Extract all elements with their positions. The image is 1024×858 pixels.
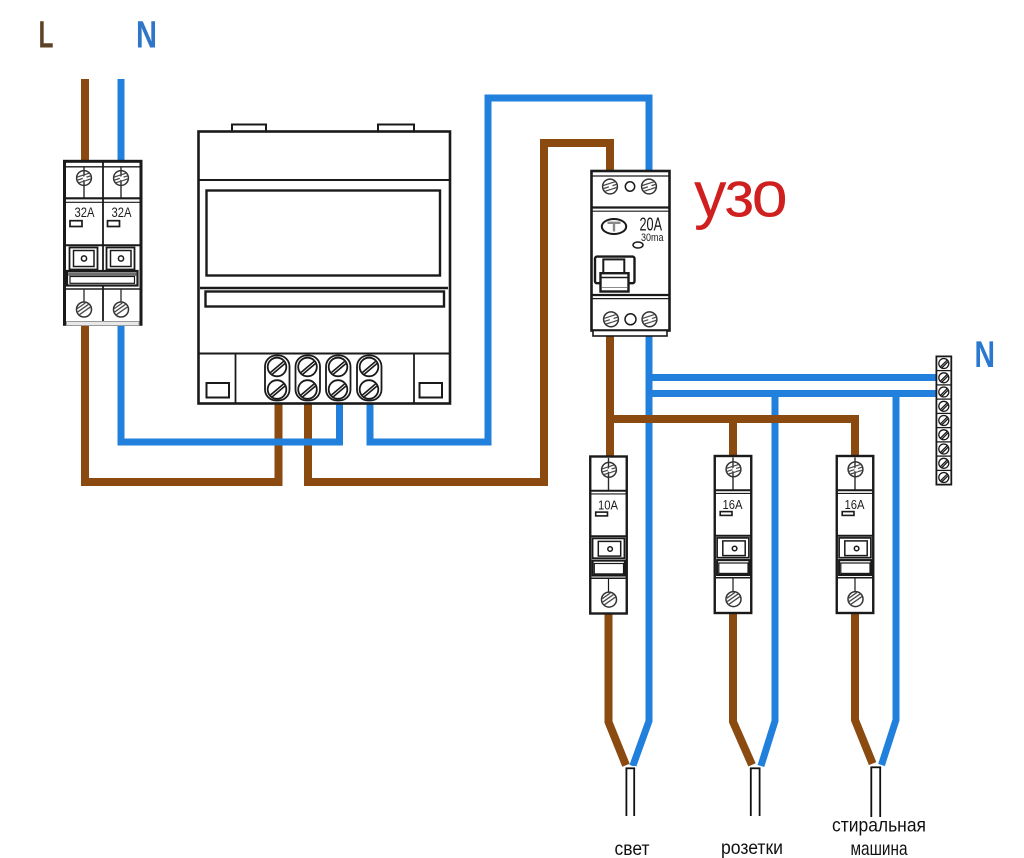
breaker QF1 pole2 indicator window xyxy=(108,221,120,227)
meter M1 terminal 3 (N in) xyxy=(326,356,351,401)
wire N drop to load3 cable xyxy=(882,390,897,765)
RCD U1 top-left screw terminal xyxy=(602,179,618,194)
breaker QF3 16A body xyxy=(715,456,752,613)
meter M1 terminal 4 (N out) xyxy=(357,356,382,401)
cable load2 (white sheath) xyxy=(749,766,761,816)
wire L load2 from QF3 bottom to cable xyxy=(733,612,752,765)
wire L bus drop to QF3 top xyxy=(729,419,737,458)
RCD U1 bottom middle hole xyxy=(625,314,636,325)
cable load1 (white sheath) xyxy=(625,766,636,816)
breaker QF1 pole1 rocker xyxy=(70,248,98,270)
breaker QF1 bottom lip xyxy=(67,322,140,326)
wire L load1 from QF2 bottom to cable xyxy=(609,612,627,765)
svg-text:розетки: розетки xyxy=(721,837,783,858)
RCD U1 small indicator oval xyxy=(633,242,643,248)
wire N from meter terminal 4 up-over to RCD top-right xyxy=(370,98,649,442)
RCD U1 top middle hole xyxy=(625,182,634,191)
breaker QF1 handle tie-bar xyxy=(67,271,138,286)
meter M1 terminal 1 (L in) xyxy=(265,356,290,401)
meter M1 terminal section line xyxy=(199,353,451,355)
RCD U1 toggle switch xyxy=(595,257,635,292)
breaker QF1 pole2 bottom screw terminal xyxy=(112,289,128,317)
wire L RCD bottom down to breaker QF2 top xyxy=(606,329,614,458)
meter M1 body xyxy=(199,125,451,404)
neutral terminal block N body xyxy=(936,356,951,484)
meter M1 terminal 2 (L out) xyxy=(296,356,321,401)
breaker QF1 switch section line xyxy=(65,244,142,246)
wire N from RCD bottom down to load1 cable xyxy=(633,329,649,766)
RCD U1 test button oval with T xyxy=(602,219,626,234)
RCD U1 lower divider xyxy=(592,295,670,299)
svg-text:32A: 32A xyxy=(75,205,96,220)
svg-text:стиральная: стиральная xyxy=(832,815,926,837)
RCD U1 bottom-right screw terminal xyxy=(642,312,658,327)
breaker QF1 mid divider xyxy=(65,198,142,202)
meter M1 DIN clip left xyxy=(207,383,230,398)
meter M1 DIN clip right xyxy=(420,383,443,398)
breaker QF1 lower divider xyxy=(65,288,142,290)
meter M1 terminal section inner dividers xyxy=(235,354,237,404)
RCD U1 top-right screw terminal xyxy=(641,179,657,194)
RCD U1 upper divider xyxy=(592,208,670,212)
meter M1 display window xyxy=(207,191,441,276)
wire N drop to load2 cable xyxy=(761,390,775,766)
breaker QF1 pole1 top screw terminal xyxy=(76,168,92,199)
breaker QF1 pole2 rocker xyxy=(107,248,135,270)
svg-text:32A: 32A xyxy=(112,205,133,220)
svg-text:30ma: 30ma xyxy=(641,232,664,244)
wire N bus horizontal 2 to N-block xyxy=(646,390,937,397)
breaker QF1 pole1 bottom screw terminal xyxy=(75,289,91,317)
cable load3 (white sheath) xyxy=(870,765,883,817)
RCD U1 body xyxy=(592,171,670,331)
RCD U1 bottom lip xyxy=(593,331,667,337)
breaker QF2 10A body xyxy=(590,457,627,614)
wire N from QF1 bottom to meter terminal 3 xyxy=(121,323,340,442)
svg-text:16A: 16A xyxy=(723,497,743,512)
meter M1 mid line xyxy=(200,287,448,289)
svg-text:свет: свет xyxy=(615,838,650,858)
svg-text:10A: 10A xyxy=(598,498,618,513)
breaker QF1 pole1 indicator window xyxy=(70,221,82,227)
breaker QF1 double-pole 32A body xyxy=(65,161,142,324)
wire L from QF1 bottom to meter terminal 1 xyxy=(85,323,279,482)
svg-text:16A: 16A xyxy=(845,497,865,512)
svg-text:узо: узо xyxy=(694,158,786,231)
wire L distribution bus from RCD to QF4 xyxy=(606,419,855,458)
wire N source drop into QF1 xyxy=(118,79,125,163)
wire L load3 from QF4 bottom to cable xyxy=(855,612,873,764)
wire N bus horizontal 1 to N-block xyxy=(646,374,937,381)
RCD U1 bottom-left screw terminal xyxy=(603,312,619,327)
breaker QF1 pole2 top screw terminal xyxy=(113,168,129,199)
svg-text:L: L xyxy=(39,15,54,57)
wire L from meter terminal 2 up-over to RCD top-left xyxy=(308,143,610,482)
neutral terminal block N cells and screws xyxy=(936,359,951,483)
svg-text:N: N xyxy=(136,15,157,57)
breaker QF4 16A body xyxy=(837,456,874,613)
meter M1 label bar xyxy=(206,292,445,307)
wire L source drop into QF1 xyxy=(81,79,89,163)
svg-text:машина: машина xyxy=(851,838,908,858)
svg-text:N: N xyxy=(975,334,996,375)
